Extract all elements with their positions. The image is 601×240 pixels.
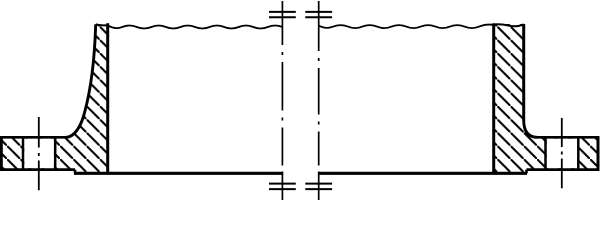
- right flange ring top line: [538, 136, 600, 139]
- right bolt hole far edge: [577, 137, 580, 169]
- right bore line (inner surface): [318, 172, 527, 175]
- left flange ring bottom line: [0, 168, 75, 171]
- right flange neck top cap: [494, 24, 524, 26]
- right break upper tick 2: [305, 16, 332, 18]
- left bore line (inner surface): [74, 172, 283, 175]
- left flange bore edge: [106, 23, 109, 173]
- right wavy break line of shell wall: [319, 25, 494, 29]
- left flange neck top cap: [96, 23, 108, 26]
- right flange outer (right) edge: [597, 137, 600, 169]
- right break lower tick 2: [305, 188, 332, 190]
- right break axis centerline: [318, 1, 320, 200]
- right flange hub fillet: [524, 120, 538, 137]
- left bolt hole near edge: [22, 137, 25, 169]
- left bolt hole far edge: [54, 137, 57, 169]
- left break lower tick 2: [269, 188, 296, 190]
- right flange bore edge: [492, 23, 495, 173]
- right flange section hatched body: [494, 24, 598, 173]
- left flange hub taper and fillet: [66, 24, 96, 137]
- right raised face step: [525, 170, 528, 174]
- left wavy break line of shell wall: [108, 25, 283, 28]
- right bolt hole (white): [547, 139, 577, 169]
- left break lower tick 1: [269, 183, 296, 185]
- left bolt hole centerline: [38, 117, 40, 190]
- left break upper tick 1: [269, 11, 296, 13]
- left raised face step: [74, 170, 77, 174]
- right flange hub outer edge: [522, 24, 525, 121]
- left flange ring top line: [0, 136, 66, 139]
- right break lower tick 1: [305, 183, 332, 185]
- right break upper tick 1: [305, 11, 332, 13]
- left break upper tick 2: [269, 16, 296, 18]
- right bolt hole centerline: [561, 118, 563, 188]
- right flange ring bottom line: [527, 168, 600, 171]
- left flange outer (left) edge: [0, 137, 3, 169]
- left break axis centerline: [281, 1, 283, 200]
- right bolt hole near edge: [544, 137, 547, 169]
- left bolt hole (white): [24, 139, 54, 169]
- left flange section hatched body: [1, 24, 108, 173]
